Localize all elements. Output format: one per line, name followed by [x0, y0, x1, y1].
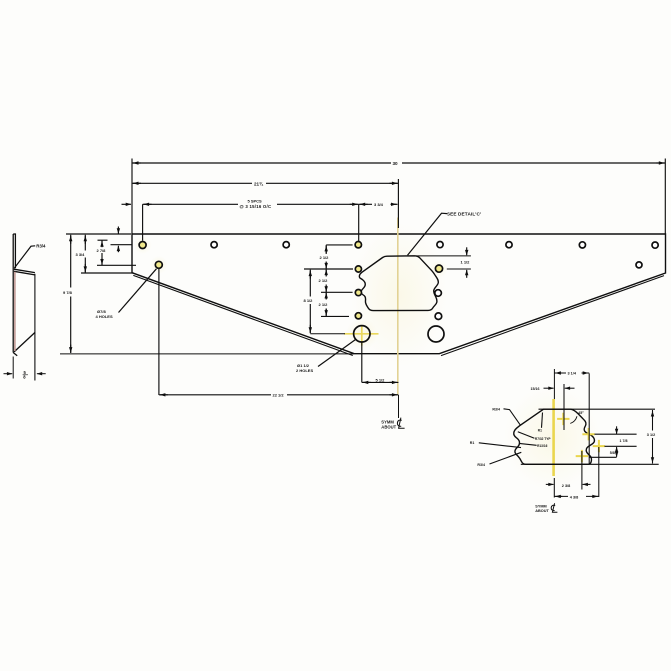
centerline lower stub: [398, 395, 400, 418]
top row hole 5: [437, 242, 443, 248]
M4 ext horizontal: [589, 456, 617, 458]
chain tick y316.4: [321, 315, 349, 317]
big hole centerline tick black: [310, 333, 345, 335]
svg-text:4 3/8: 4 3/8: [570, 496, 578, 500]
svg-text:2 7/8: 2 7/8: [97, 248, 107, 253]
R1 far leader: [479, 443, 521, 448]
chain tick y269: [304, 268, 353, 270]
plate right taper inner line: [441, 276, 664, 356]
4 3/8 dim line: [554, 495, 599, 497]
svg-text:2 3/8: 2 3/8: [562, 484, 570, 488]
center cutout outline: [359, 256, 438, 311]
1 1/2 dim arrows: [466, 247, 468, 255]
2 3/8 dim arrows: [546, 483, 554, 485]
svg-text:3 3/4: 3 3/4: [374, 202, 384, 207]
centerline glyph main: [397, 418, 404, 429]
top row hole 1 (yellow): [139, 242, 146, 249]
svg-text:R3/4: R3/4: [477, 463, 485, 467]
cutout left hole c (yellow): [355, 313, 361, 319]
detail centerline black upper: [553, 369, 555, 400]
tick y244.7 short: [111, 244, 133, 246]
M2 ext horizontal: [595, 433, 637, 435]
tick y265: [97, 264, 136, 266]
tick y273: [81, 272, 134, 274]
side view upper tab inner line: [13, 234, 15, 268]
svg-text:R1: R1: [470, 441, 475, 445]
svg-text:30: 30: [393, 161, 399, 166]
one inch edge arrow: [122, 203, 132, 205]
detail bottom edge ext: [521, 463, 659, 465]
side view radius leader: [14, 246, 35, 268]
centerline glyph detail: [551, 503, 557, 512]
svg-text:3 3/4: 3 3/4: [76, 252, 86, 257]
plate left taper inner line: [133, 275, 352, 355]
cutout left hole a (yellow): [355, 266, 361, 272]
yellow wash center plate: [351, 223, 447, 367]
22 1/2 ext line: [158, 269, 160, 395]
detail top edge ext: [539, 408, 656, 410]
svg-text:1 7/8: 1 7/8: [620, 439, 628, 443]
M3 ext vertical: [598, 447, 600, 497]
9 7/8 dim line: [70, 235, 72, 353]
8 1/2 dim line: [309, 270, 311, 334]
R3/4 bottom leader: [490, 452, 522, 464]
svg-text:1 1/2: 1 1/2: [461, 260, 471, 265]
detail yellow centerline: [552, 399, 555, 476]
big hole left yellow vertical centerline: [361, 326, 363, 345]
top row hole 4 (yellow): [355, 242, 361, 248]
svg-text:R3/4: R3/4: [36, 243, 46, 248]
ext line hole4 up: [358, 204, 360, 241]
left slope hole (yellow): [155, 261, 162, 268]
5 1/2 ext below big hole: [361, 342, 363, 382]
svg-text:R3/4: R3/4: [492, 407, 500, 411]
big hole left: [354, 326, 370, 342]
svg-text:ABOUT: ABOUT: [535, 509, 549, 513]
marker cross M4: [576, 450, 588, 462]
M2 ext vertical: [588, 373, 590, 464]
side view thickness dim left arrow: [4, 373, 13, 375]
marker cross M2: [582, 428, 594, 440]
half width arrows: [133, 182, 141, 184]
tick y240: [98, 239, 108, 241]
chain tick y292.3: [321, 291, 353, 293]
R3/4 top leader: [504, 409, 521, 426]
chain dim line x326: [325, 245, 327, 317]
svg-text:2 1/2: 2 1/2: [319, 302, 329, 307]
svg-text:21¾: 21¾: [254, 180, 264, 186]
chain tick y244.9: [326, 244, 352, 246]
ext line centerline top: [397, 179, 399, 228]
45 deg arc leader: [570, 416, 577, 423]
svg-text:5 1/2: 5 1/2: [376, 377, 386, 382]
side view pink face line: [14, 272, 16, 351]
cutout top edge ext right: [416, 255, 471, 257]
yellow glow smudges: [134, 236, 152, 254]
svg-text:22 1/2: 22 1/2: [273, 393, 285, 398]
svg-text:9 7/8: 9 7/8: [63, 290, 73, 295]
M1 ext vertical: [563, 384, 565, 430]
plate outline: [132, 234, 666, 354]
cutout right hole a (yellow): [435, 265, 442, 272]
overall width dim line: [132, 162, 665, 164]
side view left edge: [12, 234, 14, 353]
side view right edge: [34, 274, 36, 381]
dia 7/8 leader: [119, 269, 157, 313]
yellow hole right ext: [447, 268, 471, 270]
ext line plate right top: [664, 159, 666, 234]
side view flange top double line: [14, 269, 35, 275]
see detail leader: [408, 213, 448, 255]
2 7/8 dim line: [101, 240, 103, 265]
svg-text:2 1/2: 2 1/2: [319, 278, 329, 283]
side view bottom tip: [13, 353, 17, 356]
detail shape outline: [514, 409, 595, 464]
15/16 dim arrows: [544, 387, 554, 389]
svg-text:R1: R1: [538, 428, 542, 432]
top row hole 7: [579, 242, 585, 248]
plate bottom left extension line: [60, 353, 354, 355]
main symmetry centerline (faint tan): [397, 218, 399, 395]
top row hole 2: [211, 242, 217, 248]
3 1/4 dim line: [554, 372, 589, 374]
svg-text:4 HOLES: 4 HOLES: [96, 314, 113, 319]
svg-text:2 1/2: 2 1/2: [320, 255, 330, 260]
5 1/2 dim line: [362, 381, 399, 383]
ext line plate left top: [131, 159, 133, 234]
svg-text:5/8: 5/8: [610, 451, 615, 455]
big hole left yellow horizontal centerline: [344, 333, 379, 335]
svg-text:SEE DETAIL’C’: SEE DETAIL’C’: [447, 211, 482, 216]
marker cross M1: [557, 413, 569, 425]
cutout left hole b (yellow): [355, 290, 361, 296]
cutout right hole c: [435, 313, 442, 320]
3 1/2 dim line: [652, 410, 654, 464]
top row hole 3: [283, 242, 289, 248]
R7/32 leader: [518, 432, 535, 439]
side view bottom taper: [14, 333, 35, 352]
5/8 dim line: [616, 447, 618, 450]
ext line hole1 up: [142, 204, 144, 240]
top row hole 6: [506, 242, 512, 248]
3 3/4 left dim line: [84, 235, 86, 273]
R13/16 leader: [519, 443, 536, 445]
svg-text:45°: 45°: [578, 411, 584, 415]
svg-text:@ 3 15/16 O/C: @ 3 15/16 O/C: [240, 204, 272, 209]
svg-text:ABOUT: ABOUT: [381, 425, 396, 430]
R1 inner leader: [542, 413, 543, 428]
hole spacing arrows: [144, 203, 152, 205]
1 7/8 dim line: [616, 426, 618, 434]
svg-text:15/16: 15/16: [531, 387, 540, 391]
marker cross M3: [593, 440, 605, 452]
M4 ext vertical: [581, 451, 583, 490]
half width dim line: [132, 182, 398, 184]
small 1in vertical arrows: [117, 227, 119, 234]
22 1/2 dim line: [159, 394, 399, 396]
M3 ext horizontal: [605, 445, 637, 447]
svg-text:8 1/2: 8 1/2: [304, 298, 314, 303]
side view bottom ext line: [12, 357, 14, 379]
dia 1 1/2 leader: [318, 340, 355, 367]
3 3/4 dim line top: [359, 203, 398, 205]
yellow wash detail view: [504, 386, 600, 490]
centerline tick below detail: [553, 478, 555, 498]
overall width arrows: [133, 162, 141, 164]
svg-text:2 HOLES: 2 HOLES: [296, 368, 313, 373]
svg-text:5 SPCS: 5 SPCS: [248, 198, 263, 203]
cutout right hole b: [435, 290, 442, 297]
hole spacing dim line: [143, 203, 359, 205]
side view thickness dim right arrow: [37, 373, 46, 375]
svg-text:3 1/2: 3 1/2: [647, 433, 655, 437]
svg-text:R7/32 TYP: R7/32 TYP: [535, 437, 551, 441]
top row hole 8: [652, 242, 658, 248]
svg-text:3 1/4: 3 1/4: [568, 372, 577, 376]
big circle right: [428, 326, 444, 342]
top edge ext left: [66, 233, 131, 235]
right slope hole: [636, 262, 642, 268]
svg-text:R13/16: R13/16: [537, 444, 548, 448]
